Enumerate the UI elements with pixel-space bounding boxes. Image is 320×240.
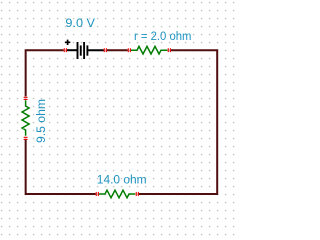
battery left lead — [67, 49, 78, 51]
battery plus sign — [65, 40, 70, 45]
svg-text:r = 2.0 ohm: r = 2.0 ohm — [134, 29, 191, 43]
battery plate long 2 — [83, 42, 85, 59]
wire bottom-left section: from bottom resistor left node to bottom-left corner up to left resistor bottom node — [26, 140, 96, 194]
svg-text:9.5 ohm: 9.5 ohm — [34, 99, 48, 143]
battery plate short 1 — [80, 45, 82, 55]
node ticks left resistor bottom node — [24, 137, 27, 139]
resistor 14.0 ohm (bottom) — [99, 190, 135, 198]
wire top-left section: from battery left node to top-left corner down to left resistor top node — [26, 50, 64, 96]
resistor r = 2.0 ohm (internal resistance) — [131, 46, 168, 54]
wire top-right section: from resistor r right node to top-right corner down to bottom-right corner then to bottom resistor right node — [139, 50, 218, 194]
battery plate short 2 — [86, 45, 88, 55]
svg-text:9.0 V: 9.0 V — [65, 16, 95, 30]
node ticks bottom resistor right node — [136, 193, 138, 196]
resistor 9.5 ohm (left side, vertical) — [22, 100, 29, 136]
background grid — [0, 0, 239, 240]
battery plate long 1 — [77, 42, 79, 59]
battery V1 9.0 V — [65, 40, 104, 59]
node ticks left resistor top node — [24, 97, 27, 99]
battery right lead — [87, 49, 103, 51]
node ticks battery right node — [104, 49, 106, 52]
node ticks battery left node — [64, 49, 66, 52]
node ticks resistor r left node — [128, 49, 130, 52]
svg-text:14.0 ohm: 14.0 ohm — [97, 172, 147, 186]
wire segment between battery and resistor r — [107, 49, 128, 51]
node ticks bottom resistor left node — [96, 193, 98, 196]
node ticks resistor r right node — [168, 49, 170, 52]
